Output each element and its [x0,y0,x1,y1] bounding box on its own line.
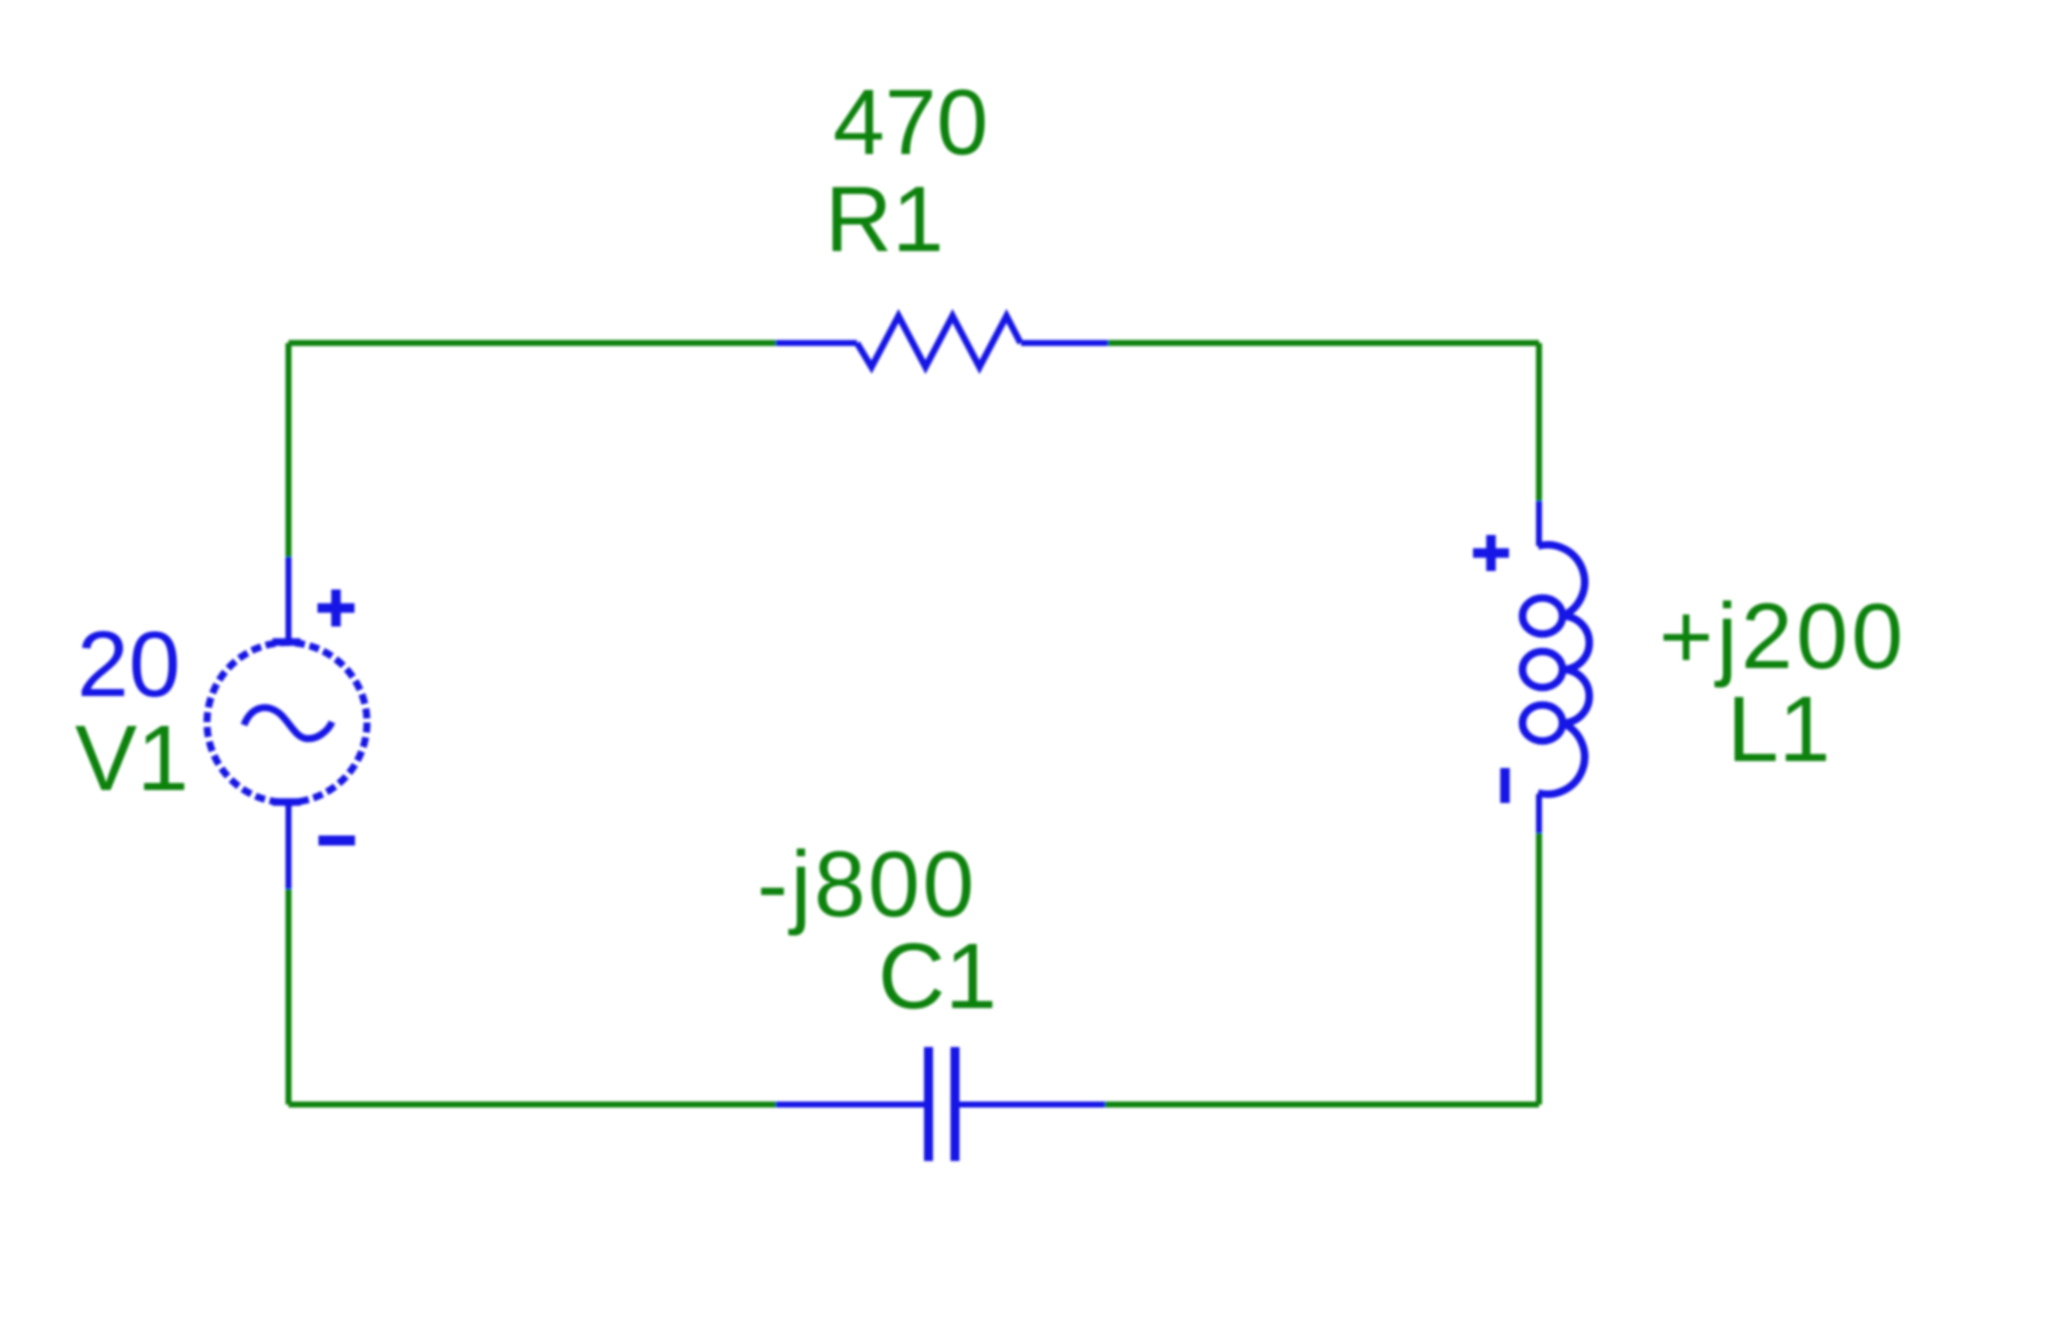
svg-text:-j800: -j800 [757,832,977,936]
svg-text:470: 470 [833,70,988,174]
svg-text:L1: L1 [1727,677,1830,781]
svg-text:V1: V1 [75,706,189,810]
svg-text:20: 20 [77,612,180,716]
svg-text:R1: R1 [825,167,944,271]
svg-text:+j200: +j200 [1659,584,1907,688]
svg-text:C1: C1 [878,924,997,1028]
